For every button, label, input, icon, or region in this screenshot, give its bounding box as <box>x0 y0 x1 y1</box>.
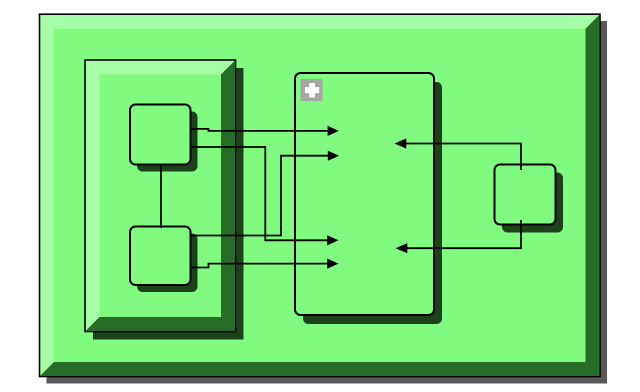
arrowhead A4 <box>327 259 338 269</box>
right square S3 shadow <box>502 173 563 233</box>
wire B1: S3 top, up, left into M1 <box>406 144 521 171</box>
arrowhead B1 <box>395 138 407 148</box>
middle block M1 <box>295 73 434 315</box>
arrowhead A1 <box>328 126 339 136</box>
wire A3: S1 right, down, to M1 <box>191 147 329 240</box>
left panel (beveled) <box>85 60 236 332</box>
left bottom square S2 shadow <box>137 234 198 293</box>
right square S3 <box>495 165 556 225</box>
arrowhead B2 <box>396 243 408 253</box>
expand badge (plus icon) on M1 <box>301 79 323 101</box>
left panel drop shadow <box>93 68 244 340</box>
wire A2: S2 right, up, to M1 <box>191 156 330 236</box>
wire A4: S2 right to M1 (with jog) <box>191 264 329 268</box>
left top square S1 <box>130 105 191 165</box>
left top square S1 shadow <box>137 112 198 172</box>
wire A1: S1 right to M1 (with jog) <box>191 129 330 131</box>
wire B2: S3 bottom, down, left into M1 <box>407 220 521 248</box>
left bottom square S2 <box>130 227 191 286</box>
arrowhead A3 <box>327 235 338 245</box>
middle block M1 shadow <box>303 82 442 324</box>
wire S1-S2 vertical link <box>160 164 162 229</box>
arrowhead A2 <box>328 151 339 161</box>
